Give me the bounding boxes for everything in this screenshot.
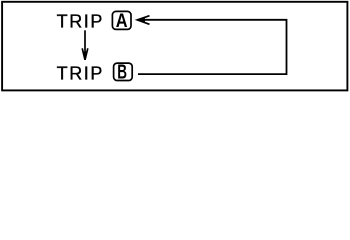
down arrow from TRIP A to TRIP B bbox=[82, 30, 88, 60]
arrowhead pointing left at A bbox=[137, 16, 149, 25]
feedback wire from B up to A bbox=[138, 20, 287, 74]
svg-text:TRIP: TRIP bbox=[57, 11, 104, 31]
outer border frame bbox=[2, 2, 347, 91]
svg-text:B: B bbox=[117, 62, 127, 84]
node box A bbox=[112, 11, 131, 32]
svg-text:TRIP: TRIP bbox=[57, 64, 104, 84]
node box B bbox=[114, 62, 133, 84]
label TRIP (row A) bbox=[57, 11, 104, 31]
svg-text:A: A bbox=[116, 11, 128, 32]
label TRIP (row B) bbox=[57, 64, 104, 84]
